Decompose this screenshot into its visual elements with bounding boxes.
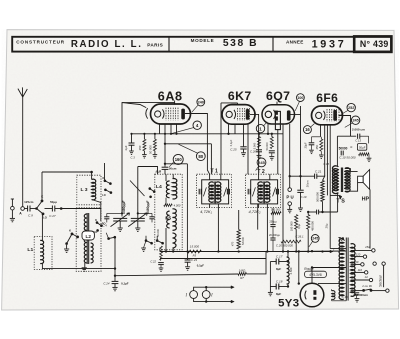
- 6Q7 diode plates: [275, 111, 278, 115]
- svg-text:4: 4: [196, 123, 199, 128]
- wire T1 primary return: [210, 144, 212, 174]
- header table box: [12, 37, 391, 52]
- PU ground: [289, 205, 291, 209]
- svg-text:1: 1: [259, 126, 262, 131]
- antenna: [22, 97, 24, 207]
- svg-text:8µF: 8µF: [276, 292, 281, 296]
- tube 6Q7 outline: [262, 105, 295, 124]
- 5Y3 top lead: [311, 268, 313, 284]
- T2 shield rect: [251, 180, 278, 204]
- svg-text:C.21: C.21: [315, 170, 322, 174]
- capacitor C9: [25, 208, 28, 210]
- L2 core: [86, 213, 88, 264]
- capacitor C3 2uF: [131, 134, 133, 143]
- coil box L2: [76, 208, 101, 271]
- svg-text:LO: LO: [43, 216, 47, 220]
- dots at trimmer bus: [121, 212, 123, 214]
- arrow tips lamp wires: [231, 286, 234, 289]
- svg-text:50000: 50000: [339, 146, 348, 150]
- svg-text:50µµ: 50µµ: [50, 200, 57, 204]
- coil L1: [40, 240, 43, 263]
- resistor 480.000 vertical: [307, 215, 310, 230]
- capacitor C18 8uF: [275, 284, 277, 290]
- wire filament center tap: [298, 252, 300, 284]
- speaker HP: [358, 176, 364, 182]
- wire L4 bottom down: [165, 228, 167, 252]
- svg-text:PARIS: PARIS: [147, 43, 163, 48]
- T1 left trimmer: [198, 189, 200, 195]
- svg-text:C.25: C.25: [230, 147, 237, 151]
- T2 right lead down: [257, 204, 259, 230]
- header cell separator 1: [168, 37, 170, 51]
- TA tap 3: [351, 263, 361, 265]
- svg-text:50cm: 50cm: [169, 167, 177, 171]
- TA tap 2: [351, 256, 364, 258]
- coil L5c: [173, 233, 177, 248]
- tube 6F6: [312, 106, 343, 125]
- svg-text:L5: L5: [165, 215, 171, 221]
- 6Q7 grid lead to PU: [289, 124, 291, 176]
- svg-text:8µF: 8µF: [276, 267, 281, 271]
- resistor 53.000 tall: [237, 230, 240, 249]
- variable capacitor CV2: [131, 217, 145, 219]
- heater wire to TA: [330, 248, 346, 250]
- TS secondary: [345, 168, 350, 192]
- resistor 450: [320, 139, 323, 151]
- IF transformer T1 box: [197, 174, 232, 207]
- coil box L1: [34, 237, 52, 270]
- junction node: [35, 207, 38, 210]
- T2 bottom lead: [266, 204, 268, 252]
- wire L3 bottom: [92, 200, 101, 209]
- trimmer C4: [104, 216, 109, 218]
- fuse line: [351, 290, 363, 292]
- TA tap 4: [351, 271, 365, 273]
- terminal A: [21, 207, 25, 211]
- oscillator coupling diagonal wire: [130, 181, 145, 197]
- T2 secondary top lead: [269, 174, 271, 180]
- svg-text:4V5-3V8: 4V5-3V8: [309, 273, 322, 277]
- svg-text:C.17: C.17: [276, 254, 283, 258]
- 6Q7 left lead long: [282, 124, 284, 252]
- T1 shield rect: [202, 180, 229, 204]
- svg-text:CONSTRUCTEUR: CONSTRUCTEUR: [16, 40, 65, 45]
- svg-text:C.26: C.26: [250, 150, 256, 154]
- TS bottom wire to heater line: [330, 194, 340, 196]
- svg-text:C.3: C.3: [131, 156, 136, 160]
- wire grid line from 6A8 top cap: [122, 103, 146, 217]
- svg-text:20.000µµ: 20.000µµ: [269, 233, 280, 237]
- T1 winding bottom stubs: [209, 204, 211, 208]
- svg-text:25µF: 25µF: [304, 142, 308, 148]
- svg-text:K: K: [95, 218, 97, 222]
- wire screen feed to rail: [164, 163, 166, 165]
- CV2 ground: [137, 221, 139, 228]
- T2 primary coil: [258, 182, 263, 202]
- svg-text:110: 110: [354, 260, 359, 264]
- CV1 ground: [119, 221, 121, 228]
- dial lamp L1: [190, 291, 198, 299]
- svg-text:6Q7: 6Q7: [266, 89, 290, 103]
- svg-text:6A8: 6A8: [158, 90, 183, 104]
- svg-text:245: 245: [352, 119, 358, 123]
- svg-text:4.000: 4.000: [174, 204, 181, 208]
- capacitor C21 wire: [290, 175, 315, 177]
- wire top grid cap horizontal: [122, 102, 175, 104]
- svg-text:50µF: 50µF: [359, 146, 366, 150]
- wire to L2 bank: [61, 208, 101, 210]
- T1 right trimmer: [226, 189, 228, 195]
- svg-text:±460µµF: ±460µµF: [122, 201, 126, 215]
- T2 primary top lead: [258, 174, 260, 180]
- coil L4b: [167, 211, 170, 228]
- 6K7 bottom leads: [228, 124, 230, 134]
- T2 left trimmer: [247, 189, 249, 195]
- capacitor C24: [114, 237, 116, 281]
- T2 core: [262, 182, 264, 204]
- svg-text:470: 470: [231, 241, 235, 246]
- node after C27: [60, 207, 63, 210]
- svg-text:±460µµF: ±460µµF: [146, 201, 150, 215]
- trimmer C5: [149, 216, 154, 218]
- capacitor C10: [340, 151, 342, 156]
- resistor 300 in switch area: [160, 246, 163, 260]
- resistor 5000 under 6Q7: [258, 137, 261, 148]
- svg-text:K: K: [69, 228, 71, 232]
- wire LO down to L1: [41, 215, 43, 241]
- svg-text:6F6: 6F6: [316, 91, 338, 105]
- svg-text:120: 120: [356, 252, 361, 256]
- ground under switch: [66, 245, 68, 249]
- svg-text:250µµ: 250µµ: [269, 220, 277, 224]
- capacitor C25: [240, 146, 246, 148]
- 6K7 plate wire to T2: [250, 114, 259, 174]
- svg-text:538 B: 538 B: [223, 38, 258, 49]
- choke bottom to 5Y3: [287, 284, 289, 287]
- svg-text:20µ: 20µ: [325, 223, 329, 228]
- svg-text:0,1µF: 0,1µF: [230, 139, 233, 146]
- T2 winding bottom stubs: [258, 204, 260, 208]
- capacitor C19: [297, 189, 303, 191]
- wire CV2 up to oscillator: [137, 167, 139, 219]
- svg-text:245: 245: [312, 237, 318, 241]
- wire L5 bottom down: [172, 248, 174, 252]
- capacitor C12 25uF: [312, 136, 321, 138]
- svg-text:480.000: 480.000: [310, 221, 314, 231]
- header number box N 439: [354, 36, 391, 52]
- resistor 100.000 vertical: [295, 215, 298, 230]
- circled 245 right: [351, 116, 359, 124]
- svg-text:Ω: Ω: [350, 145, 352, 149]
- TA left winding: [339, 239, 344, 300]
- svg-text:C.15: C.15: [323, 162, 329, 166]
- capacitor C8 50cm: [162, 166, 169, 168]
- svg-text:C.20 500.000: C.20 500.000: [276, 244, 293, 248]
- svg-text:110: 110: [358, 268, 363, 272]
- wire cathode rail y133.8: [132, 133, 284, 135]
- svg-text:R5: R5: [193, 254, 197, 258]
- 5Y3 heater coil: [332, 291, 335, 300]
- oscillator band switch cluster: [104, 163, 106, 181]
- svg-text:C.27: C.27: [49, 214, 56, 218]
- heater rail to 1Mohm: [115, 274, 238, 276]
- box 50uF: [368, 136, 370, 143]
- svg-text:4,72K₁: 4,72K₁: [200, 209, 212, 214]
- 6Q7 triode lead down: [277, 130, 279, 175]
- coil L2 secondary: [91, 243, 94, 263]
- resistor C20 500.000: [281, 240, 301, 243]
- 6Q7 triode plate open rect: [275, 111, 280, 129]
- 6K7 grid cap wire: [221, 102, 238, 104]
- switch contacts right of L2: [96, 221, 99, 224]
- tube 6A8: [151, 104, 191, 124]
- circled 245 at T2: [257, 158, 266, 167]
- svg-text:500.000: 500.000: [271, 207, 281, 211]
- svg-text:500.000: 500.000: [315, 192, 319, 202]
- svg-text:50.000: 50.000: [156, 228, 160, 236]
- circled 245 low: [311, 235, 319, 243]
- svg-text:252: 252: [348, 106, 354, 110]
- switch dots above C24: [107, 237, 110, 240]
- lamp wires: [194, 287, 231, 290]
- svg-text:K: K: [102, 176, 104, 180]
- resistor 250: [143, 139, 146, 151]
- 6Q7 plate bar: [287, 110, 291, 120]
- wire L5 top: [172, 174, 174, 179]
- 6F6 bottom leads: [320, 125, 322, 137]
- 6Q7 top stub: [276, 102, 278, 105]
- svg-text:5.000: 5.000: [253, 142, 257, 149]
- svg-text:53.000: 53.000: [241, 236, 245, 244]
- left divider chain under T2: [271, 212, 281, 215]
- svg-text:C.13: C.13: [355, 138, 361, 142]
- svg-text:80: 80: [198, 154, 203, 159]
- L2 ground: [84, 263, 86, 267]
- svg-text:C.24: C.24: [103, 282, 109, 286]
- ground wire caps: [269, 262, 271, 293]
- svg-text:240: 240: [197, 99, 204, 104]
- svg-text:T 1: T 1: [210, 169, 218, 175]
- svg-text:1MΩ: 1MΩ: [239, 268, 246, 272]
- svg-text:GO: GO: [93, 230, 97, 234]
- 6Q7 bottom leads: [267, 124, 269, 134]
- svg-text:C.18: C.18: [276, 279, 283, 283]
- svg-text:15.000: 15.000: [190, 245, 200, 249]
- 6F6 plate wire: [339, 116, 351, 137]
- coil L5a: [173, 179, 177, 199]
- coil L3: [91, 172, 93, 180]
- TA tap 1: [351, 249, 372, 251]
- coil L5b: [173, 209, 177, 230]
- TA tap 5: [351, 279, 370, 281]
- svg-text:2µF: 2µF: [124, 145, 128, 150]
- svg-text:0,1µF: 0,1µF: [121, 282, 129, 286]
- svg-text:ANNEE: ANNEE: [286, 39, 304, 44]
- svg-text:HP: HP: [362, 196, 370, 202]
- svg-text:100 000: 100 000: [290, 221, 294, 231]
- resistor 4.000 between coils: [165, 198, 167, 206]
- 6A8 top stub: [174, 101, 176, 105]
- svg-text:450: 450: [315, 144, 319, 149]
- ground symbol left: [11, 210, 13, 218]
- B plus rail: [160, 251, 330, 253]
- coil box L4 L5: [155, 174, 182, 250]
- choke 2500: [287, 252, 289, 258]
- svg-text:T 2: T 2: [257, 169, 265, 175]
- svg-text:30cm: 30cm: [306, 180, 310, 188]
- resistor 15.000 R5: [188, 250, 202, 253]
- TS wires to speaker: [345, 169, 357, 172]
- svg-text:C.8: C.8: [156, 169, 161, 173]
- TA core: [345, 238, 347, 301]
- tube 6K7: [222, 105, 255, 125]
- svg-text:N° 439: N° 439: [360, 39, 389, 49]
- resistor 50.000 under 6Q7: [270, 137, 273, 149]
- 6Q7 plate wire: [291, 114, 301, 116]
- T1 secondary top wire to 6K7 grid: [220, 174, 222, 180]
- T1 primary top lead: [209, 174, 211, 180]
- tube 5Y3 circle: [300, 283, 324, 307]
- svg-text:2.000 cm: 2.000 cm: [352, 128, 365, 132]
- variable capacitor CV1: [113, 217, 127, 219]
- svg-text:L 3: L 3: [80, 187, 87, 193]
- switch contacts at L4 box edge: [149, 187, 152, 190]
- heater arrows at rail end: [330, 250, 333, 253]
- header cell separator 2: [272, 37, 274, 51]
- ground terminal: [11, 199, 13, 206]
- circled 4: [193, 121, 201, 129]
- svg-text:4,72K₂: 4,72K₂: [249, 209, 261, 214]
- coil L4a: [166, 181, 169, 198]
- wire 5Y3 plate 2: [318, 283, 346, 285]
- IF transformer T2 box: [246, 174, 281, 207]
- wire 5Y3 plate 1: [312, 267, 346, 269]
- wire HP down: [369, 189, 371, 248]
- wire B+ top: [288, 250, 346, 253]
- svg-text:125cm: 125cm: [24, 200, 34, 204]
- svg-text:1d: 1d: [365, 275, 368, 279]
- svg-text:0,1µF: 0,1µF: [197, 264, 204, 268]
- svg-text:6K7: 6K7: [228, 89, 252, 103]
- svg-text:C.22: C.22: [150, 259, 156, 263]
- circled 16: [303, 126, 311, 134]
- svg-text:100: 100: [297, 96, 303, 100]
- resistor 1M R7: [238, 272, 246, 275]
- svg-text:1 ou Rt: 1 ou Rt: [362, 284, 372, 288]
- TS primary bottom down: [337, 193, 339, 212]
- svg-text:C.23: C.23: [191, 258, 197, 262]
- PU terminals: [289, 176, 291, 188]
- svg-text:LO: LO: [102, 194, 106, 197]
- svg-text:L1: L1: [27, 247, 33, 253]
- wire L4 top: [165, 174, 167, 181]
- coil L2 primary: [84, 214, 87, 263]
- svg-text:2.500: 2.500: [289, 267, 293, 274]
- svg-text:R7: R7: [240, 276, 244, 280]
- T1 core: [213, 182, 215, 204]
- TA right winding: [351, 244, 355, 297]
- svg-text:50 000: 50 000: [148, 145, 152, 154]
- switch lever cluster mid: [65, 242, 68, 245]
- svg-text:L2: L2: [86, 234, 92, 239]
- T1 primary coil: [209, 182, 214, 202]
- switch cluster 2: [145, 239, 148, 242]
- heater voltage box: [305, 271, 327, 277]
- circled 1: [256, 124, 264, 132]
- svg-text:245: 245: [258, 160, 265, 165]
- circled 240: [197, 98, 205, 106]
- svg-text:C.9: C.9: [28, 213, 33, 217]
- svg-text:P U: P U: [286, 195, 293, 200]
- wire y143.8 branch: [164, 134, 166, 167]
- secteur terminals: [373, 262, 376, 265]
- svg-text:50.000: 50.000: [265, 142, 269, 150]
- T1 bottom lead to B rail: [217, 204, 219, 252]
- capacitor C27: [45, 208, 53, 210]
- circled 80: [196, 152, 205, 161]
- circled 100: [297, 94, 305, 102]
- svg-text:1937: 1937: [312, 38, 347, 50]
- capacitor C17 8uF: [275, 259, 277, 265]
- resistor to ground under 50uF: [359, 153, 369, 156]
- output transformer TS primary: [332, 166, 338, 194]
- dial lamp L2: [202, 291, 210, 299]
- T1 secondary coil: [216, 182, 221, 202]
- T2 right trimmer: [275, 189, 277, 195]
- svg-text:160: 160: [175, 157, 183, 162]
- 6A8 bottom leads: [159, 124, 161, 134]
- L2 label: [82, 231, 94, 240]
- svg-text:RADIO L. L.: RADIO L. L.: [71, 39, 143, 50]
- svg-text:250: 250: [138, 145, 142, 150]
- circled 160: [173, 154, 183, 164]
- rail y258: [160, 258, 266, 260]
- svg-text:16: 16: [305, 127, 310, 132]
- switch contact K: [37, 202, 42, 209]
- wire K up to coil bus: [41, 172, 43, 200]
- TS core: [340, 168, 342, 193]
- svg-text:C.4: C.4: [103, 223, 108, 227]
- 6A8 plate wire to T1: [185, 114, 210, 175]
- svg-text:C.19: C.19: [301, 195, 307, 199]
- resistor 500.000 volume: [321, 181, 325, 202]
- svg-text:C.16: C.16: [342, 295, 348, 299]
- circled 252: [347, 103, 355, 111]
- capacitor C13 2000cm: [357, 134, 359, 139]
- svg-text:Secteur: Secteur: [378, 274, 382, 287]
- svg-text:MODELE: MODELE: [191, 38, 215, 43]
- svg-text:L4: L4: [156, 184, 162, 190]
- coil box L3: [77, 175, 101, 205]
- svg-text:C.10 50.000: C.10 50.000: [339, 155, 356, 159]
- svg-text:5Y3: 5Y3: [278, 298, 299, 310]
- wire top coil bus y172: [42, 171, 92, 173]
- T2 secondary coil: [265, 182, 270, 202]
- svg-text:C.26,1: C.26,1: [295, 235, 304, 239]
- capacitor C23: [187, 252, 189, 260]
- switch contact LO: [37, 209, 44, 214]
- capacitor C14: [316, 210, 318, 215]
- wire L1 bottom to rail: [42, 264, 115, 269]
- svg-text:15d: 15d: [365, 245, 370, 249]
- resistor 50000: [153, 139, 156, 151]
- svg-text:0,1µ: 0,1µ: [297, 223, 301, 229]
